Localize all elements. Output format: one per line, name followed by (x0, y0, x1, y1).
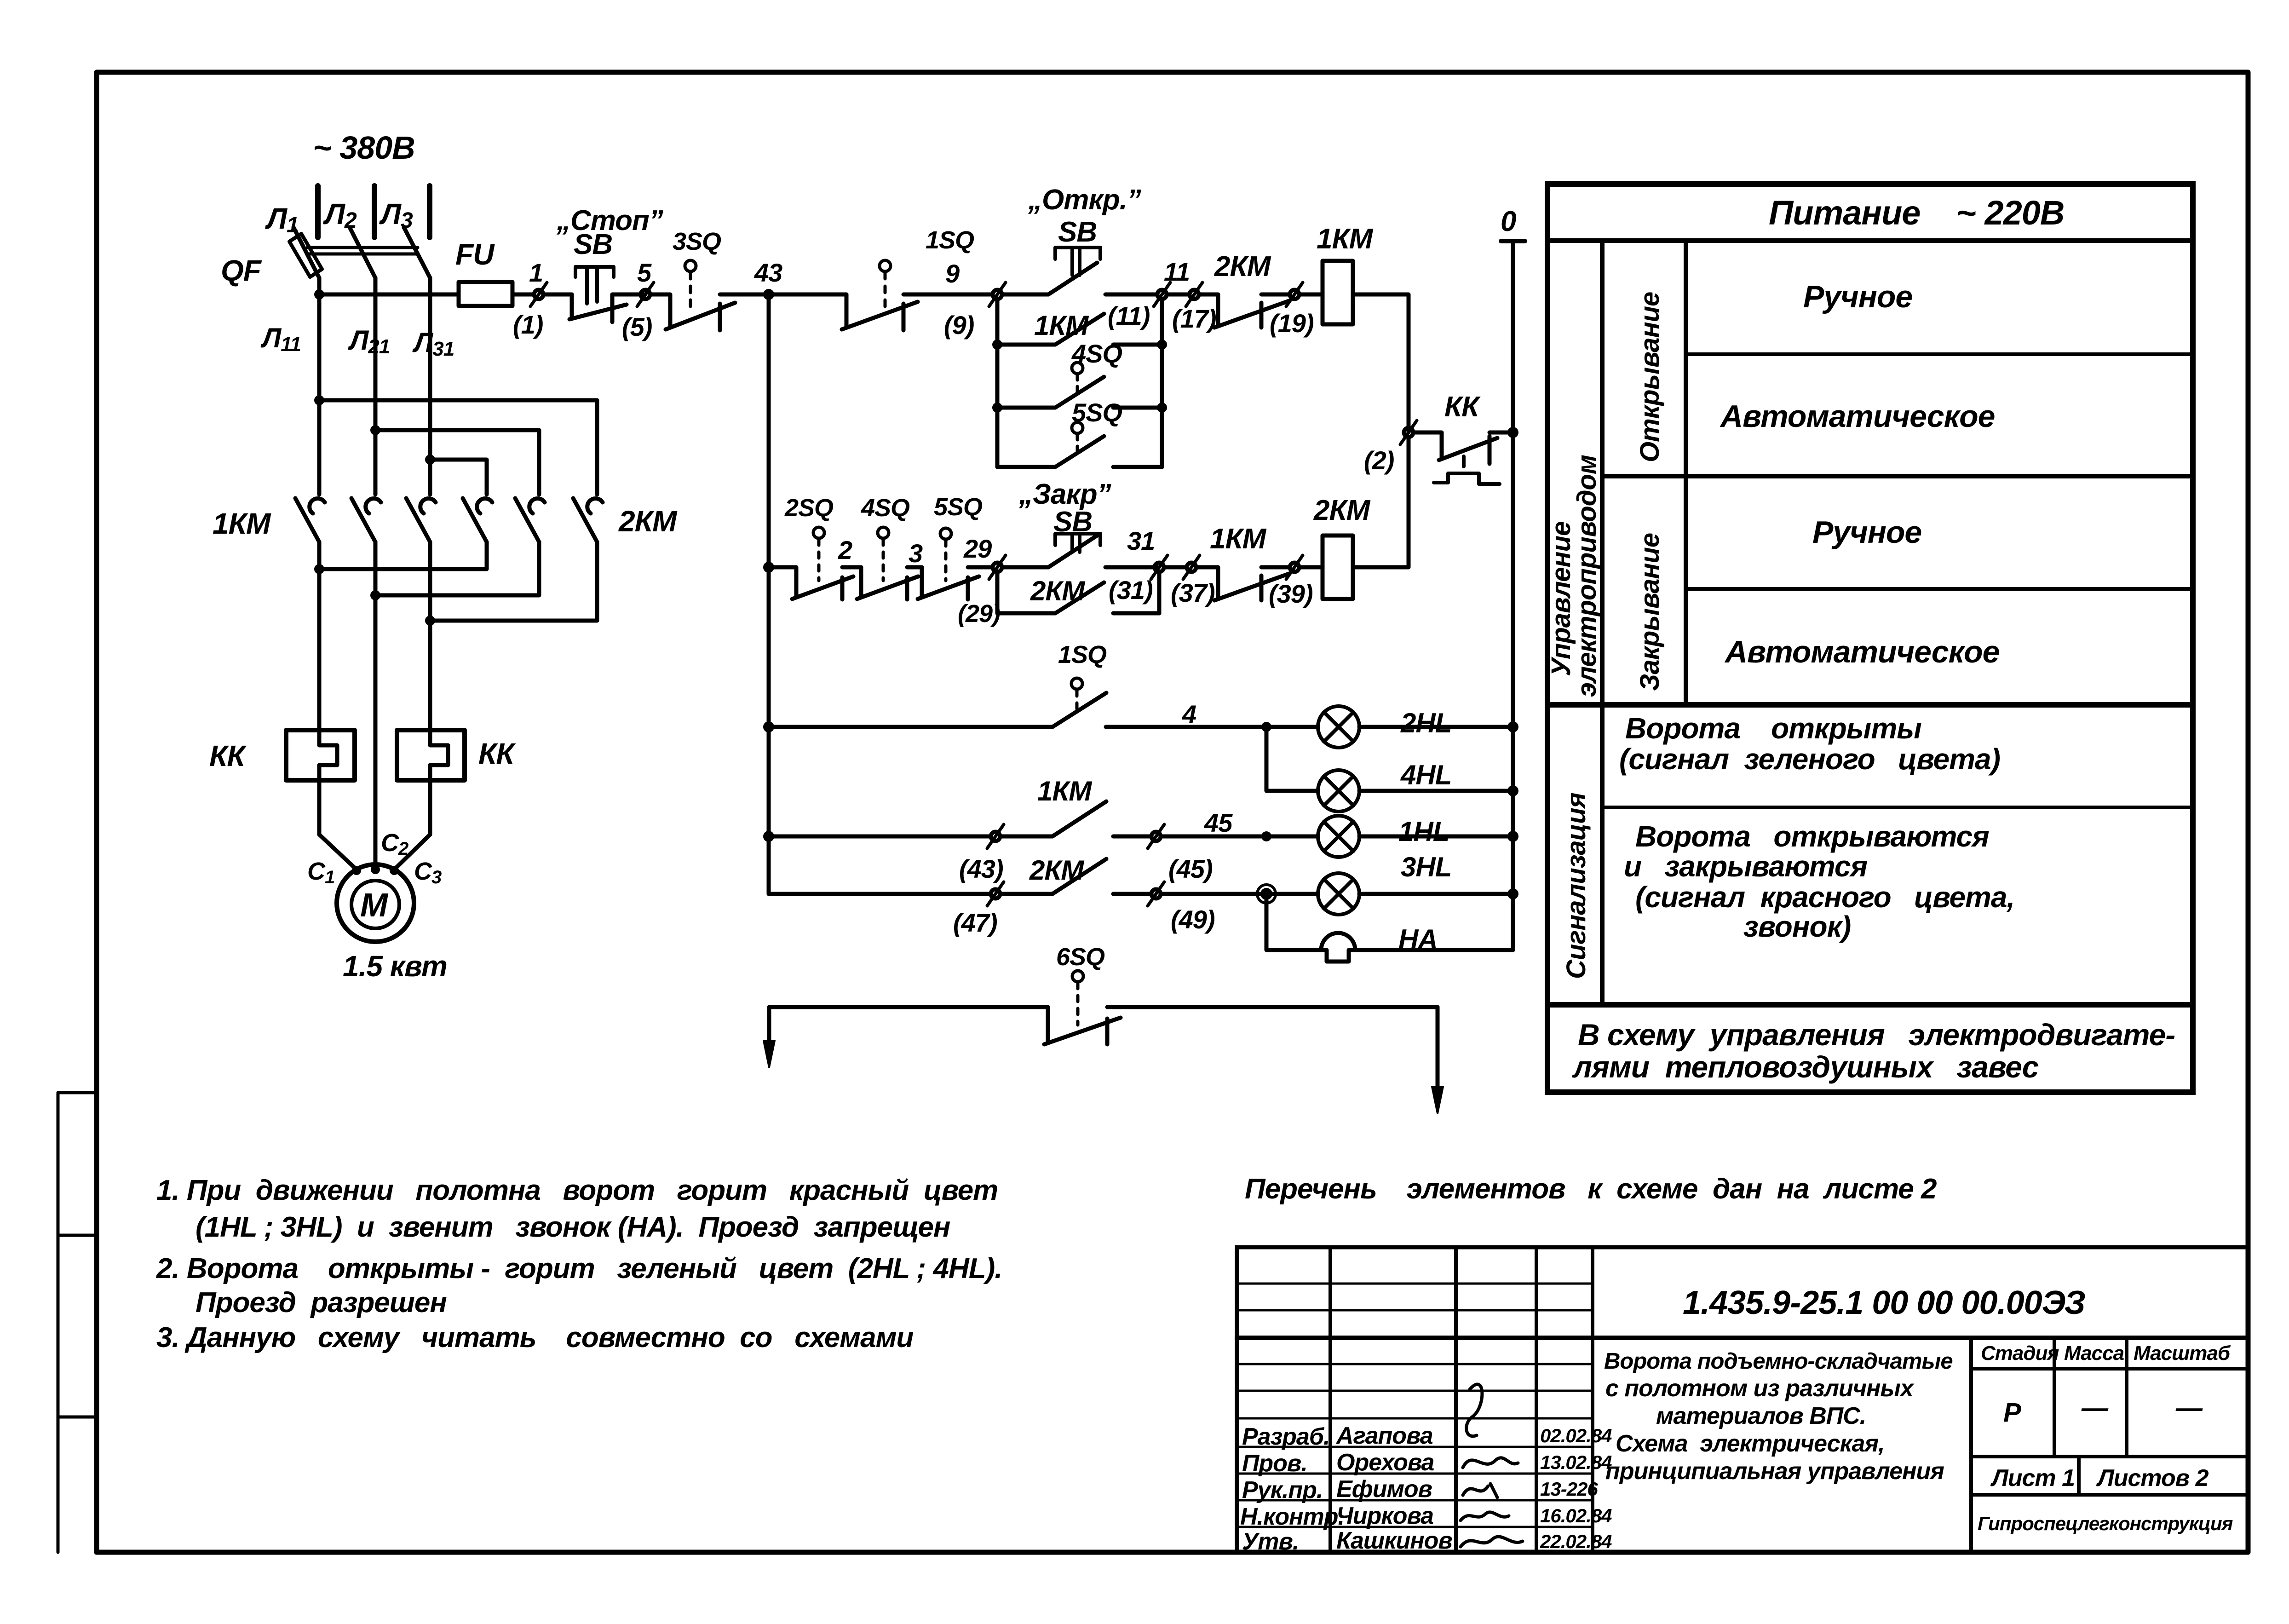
node on L11 y870 (314, 395, 324, 405)
svg-text:Агапова: Агапова (1335, 1422, 1433, 1449)
node rung5 bell branch (1260, 888, 1272, 900)
limit switch 5SQ head (1072, 422, 1083, 433)
table divider ruchnoe/avto 1 (1686, 352, 2193, 356)
svg-text:Схема электрическая,: Схема электрическая, (1616, 1430, 1885, 1457)
wire heater1 to motor (319, 777, 357, 870)
node on right branch y886 (1157, 403, 1167, 413)
wire rung3 left (769, 725, 1047, 729)
svg-text:0: 0 (1501, 206, 1516, 237)
svg-text:FU: FU (455, 238, 495, 271)
wire column L11 (317, 278, 322, 731)
limit switch 6SQ NC contact (1044, 1007, 1438, 1044)
thermal element KK left wire jog (319, 731, 337, 777)
node bus rung4hl (1507, 785, 1518, 796)
svg-text:SB: SB (1058, 216, 1097, 248)
svg-text:43: 43 (754, 258, 782, 287)
svg-text:Ворота открываются: Ворота открываются (1635, 820, 1989, 853)
wire heater2 to motor (394, 777, 430, 870)
contactor 2KM pole 6 (573, 498, 603, 542)
svg-text:Чиркова: Чиркова (1336, 1503, 1433, 1529)
point (2) circle (1404, 428, 1413, 437)
contact 1KM NC rung2 (1196, 567, 1290, 600)
node bus rung4 (1507, 831, 1518, 842)
point (45) circle (1151, 832, 1161, 841)
svg-text:22.02.84: 22.02.84 (1540, 1531, 1612, 1552)
branch right vertical to node 31 (1157, 572, 1162, 613)
terminal 0 bar (1501, 239, 1525, 243)
title block name section top (1237, 1336, 2248, 1340)
svg-text:4HL: 4HL (1400, 760, 1451, 790)
svg-text:(1HL ; 3HL) и звенит звоно: (1HL ; 3HL) и звенит звонок (НА). Проезд… (196, 1211, 950, 1243)
point (39) circle (1290, 563, 1299, 572)
thermal element KK right wire jog (430, 731, 448, 777)
node on L21 y1294 (370, 590, 380, 600)
svg-text:2КМ: 2КМ (1030, 576, 1086, 606)
svg-text:электроприводом: электроприводом (1572, 455, 1602, 697)
svg-text:—: — (2175, 1393, 2203, 1423)
svg-text:4SQ: 4SQ (1071, 339, 1122, 368)
coil 1KM (1323, 261, 1353, 324)
wire cross L1 to 2KM-6 (319, 400, 597, 495)
node on branch y886 (992, 403, 1002, 413)
svg-text:1КМ: 1КМ (213, 507, 271, 540)
svg-text:Пров.: Пров. (1242, 1450, 1307, 1477)
svg-text:Н.контр.: Н.контр. (1240, 1503, 1344, 1530)
svg-text:(1): (1) (513, 310, 543, 339)
limit switch 5SQ NC contact rung2 (918, 567, 993, 599)
svg-text:2. Ворота открыты - горит: 2. Ворота открыты - горит зеленый цвет (… (156, 1253, 1002, 1284)
arrow right down (1432, 1087, 1443, 1113)
node L2 terminal bar (372, 186, 377, 237)
svg-text:„Закр”: „Закр” (1018, 478, 1111, 510)
wire rung6 with left arrow (769, 1007, 1048, 1054)
svg-text:11: 11 (1164, 257, 1190, 286)
coil 2KM (1323, 536, 1353, 599)
svg-text:1КМ: 1КМ (1034, 310, 1089, 341)
limit switch 4SQ NC contact rung2 (857, 567, 922, 599)
node rung3 lamp branch (1261, 722, 1271, 732)
table divider signal/vshemu (1547, 1002, 2193, 1008)
lamp 2HL (1266, 725, 1318, 729)
limit switch 2SQ NC contact (769, 567, 861, 599)
button SB close NO contact (1048, 536, 1157, 567)
table divider ruchnoe/avto 2 (1686, 587, 2193, 591)
wire cross L3 to 2KM-4 (430, 460, 487, 495)
table divider otkr/zakr (1602, 474, 2193, 478)
svg-text:2HL: 2HL (1400, 708, 1451, 738)
svg-text:1SQ: 1SQ (1058, 641, 1107, 668)
breaker QF blade 2 (350, 227, 375, 278)
svg-text:звонок): звонок) (1743, 910, 1851, 943)
svg-text:3: 3 (909, 539, 923, 568)
point 5 circle (641, 290, 650, 299)
node rung2 left (763, 562, 774, 573)
svg-text:QF: QF (221, 254, 262, 287)
svg-text:Р: Р (2003, 1398, 2021, 1428)
svg-text:(39): (39) (1269, 579, 1313, 608)
svg-text:5SQ: 5SQ (934, 493, 983, 521)
svg-text:2: 2 (838, 536, 852, 564)
node bus rung5 (1507, 888, 1518, 899)
node rung4 lamp (1261, 831, 1271, 841)
breaker QF blade 3 (404, 227, 430, 278)
signature 4 (1461, 1512, 1509, 1520)
branch 2KM selfhold left vertical (995, 572, 1000, 613)
svg-text:(49): (49) (1171, 905, 1215, 934)
contactor 1KM pole 3 (406, 498, 436, 542)
point (9) circle (993, 290, 1002, 299)
node L3 terminal bar (427, 186, 432, 237)
arrow left down (764, 1041, 775, 1067)
wire 2KM-4 to L1 column (319, 542, 487, 569)
contactor 1KM pole 2 (351, 498, 381, 542)
contactor 2KM pole 5 (515, 498, 545, 542)
svg-text:1: 1 (529, 258, 543, 287)
svg-text:02.02.84: 02.02.84 (1540, 1425, 1612, 1446)
node 31 circle (1155, 563, 1164, 572)
svg-text:2КМ: 2КМ (1313, 495, 1371, 526)
svg-text:(29): (29) (958, 600, 1000, 628)
wire (29) to SB close (1002, 565, 1048, 570)
svg-text:1.435.9-25.1 00 00 00.00ЭЗ: 1.435.9-25.1 00 00 00.00ЭЗ (1683, 1284, 2085, 1321)
svg-text:(17): (17) (1172, 304, 1216, 333)
button SB open NO contact (1048, 263, 1157, 294)
lamp 4HL branch (1266, 731, 1318, 791)
svg-text:13-226: 13-226 (1540, 1478, 1598, 1500)
wire point1 to SB stop (543, 293, 572, 297)
node KK to 0 bus (1507, 427, 1518, 438)
limit switch 4SQ head (1072, 363, 1083, 374)
thermal element KK left box (286, 730, 355, 780)
svg-text:Ручное: Ручное (1803, 279, 1912, 314)
point (43) circle (991, 832, 1000, 841)
svg-text:—: — (2081, 1393, 2109, 1423)
motor M circle outer (337, 864, 414, 942)
svg-text:4: 4 (1182, 700, 1196, 729)
svg-text:Стадия: Стадия (1981, 1342, 2059, 1365)
point (29) circle (993, 563, 1002, 572)
svg-text:Закрывание: Закрывание (1635, 533, 1665, 691)
node on L11 y1237 (314, 564, 324, 574)
svg-text:Кашкинов: Кашкинов (1336, 1527, 1452, 1554)
svg-text:SB: SB (1053, 506, 1092, 538)
table header divider (1547, 238, 2193, 243)
svg-text:1КМ: 1КМ (1317, 223, 1374, 255)
svg-text:31: 31 (1127, 526, 1155, 555)
svg-text:(37): (37) (1171, 578, 1215, 607)
node rung4 left (763, 831, 774, 842)
point (37) circle (1187, 563, 1196, 572)
svg-text:принципиальная управления: принципиальная управления (1605, 1458, 1944, 1485)
bus 0 vertical (1511, 241, 1515, 950)
limit switch 6SQ head (1072, 971, 1083, 982)
contact 2KM NC rung1 (1199, 294, 1290, 328)
point 1 circle (534, 290, 543, 299)
svg-text:Утв.: Утв. (1242, 1528, 1299, 1555)
svg-text:Открывание: Открывание (1635, 292, 1665, 462)
svg-text:1. При движении полотна в: 1. При движении полотна ворот горит крас… (156, 1175, 998, 1206)
svg-text:(9): (9) (944, 311, 974, 340)
wire coil2 to right vertical (1299, 437, 1409, 567)
svg-text:Орехова: Орехова (1336, 1449, 1434, 1476)
svg-text:SB: SB (574, 229, 612, 260)
node on branch y749 (992, 340, 1002, 350)
svg-text:45: 45 (1204, 808, 1233, 837)
title block verticals left grid (1330, 1247, 1593, 1552)
bell HA branch wire (1266, 900, 1321, 950)
svg-text:с полотном из различных: с полотном из различных (1605, 1375, 1915, 1402)
signature 2 (1463, 1458, 1518, 1468)
button SB open actuator (1055, 248, 1100, 275)
svg-text:КК: КК (209, 739, 247, 772)
svg-text:5: 5 (637, 258, 652, 287)
node on L31 y999 (425, 455, 435, 465)
svg-text:(2): (2) (1364, 446, 1394, 475)
limit switch 1SQ signal head (1071, 678, 1082, 689)
svg-text:М: М (360, 887, 389, 924)
svg-text:КК: КК (478, 737, 516, 770)
contact 1KM signal NO (1000, 801, 1151, 836)
svg-text:(45): (45) (1168, 854, 1213, 883)
title block stadiya column (1971, 1338, 2127, 1552)
svg-text:1КМ: 1КМ (1210, 523, 1267, 555)
table col line 1 (1600, 241, 1605, 1005)
svg-text:1HL: 1HL (1398, 816, 1449, 847)
svg-text:материалов ВПС.: материалов ВПС. (1656, 1403, 1866, 1429)
contact 1KM aux NO (997, 314, 1162, 345)
wire rung5 left (769, 836, 991, 894)
svg-text:Ефимов: Ефимов (1336, 1476, 1432, 1503)
svg-text:Разраб.: Разраб. (1242, 1423, 1329, 1450)
vertical bus node43 down (767, 299, 771, 894)
limit switch 5SQ NO contact (997, 436, 1162, 467)
svg-text:Гипроспецлегконструкция: Гипроспецлегконструкция (1978, 1513, 2233, 1534)
bell HA (1321, 933, 1355, 962)
signature 1 (1467, 1384, 1482, 1436)
thermal KK heater mark (1434, 456, 1500, 484)
wire rung3 right (1106, 725, 1266, 729)
node on L31 y1349 (425, 616, 435, 626)
svg-text:29: 29 (963, 534, 992, 563)
wire (9) to SB open (1002, 293, 1048, 297)
title block list divider (1971, 1457, 2248, 1495)
lamp 1HL (1266, 835, 1318, 839)
svg-text:16.02.84: 16.02.84 (1540, 1505, 1612, 1526)
wire node43 to 1SQ (769, 293, 846, 297)
svg-text:(5): (5) (622, 312, 652, 341)
wire fuse to point 1 (512, 293, 534, 297)
svg-text:3SQ: 3SQ (673, 228, 721, 255)
svg-text:Автоматическое: Автоматическое (1720, 399, 1995, 434)
svg-text:Лист 1: Лист 1 (1990, 1465, 2075, 1492)
svg-text:4SQ: 4SQ (861, 494, 910, 522)
title block outer (1237, 1247, 2248, 1552)
svg-text:Ворота подъемно-складчатые: Ворота подъемно-складчатые (1604, 1349, 1953, 1374)
node rung3 left (763, 721, 774, 732)
svg-text:2SQ: 2SQ (784, 494, 834, 522)
svg-text:„Откр.”: „Откр.” (1028, 184, 1141, 216)
svg-text:2КМ: 2КМ (1029, 855, 1085, 886)
node on L21 y935 (370, 425, 380, 435)
svg-text:Масса: Масса (2064, 1342, 2124, 1365)
svg-text:КК: КК (1444, 391, 1481, 423)
breaker QF handle rect (289, 234, 322, 277)
svg-text:2КМ: 2КМ (1214, 251, 1271, 282)
wire coil1 to right vertical (1299, 294, 1409, 432)
wire rung1 node to fuse (319, 293, 459, 297)
svg-text:6SQ: 6SQ (1056, 943, 1105, 971)
table outer frame (1547, 184, 2193, 1092)
table col line 2 (1684, 241, 1688, 705)
table divider vorota rows (1602, 806, 2193, 809)
point (47) circle (991, 889, 1000, 898)
limit switch 4SQ head rung2 (878, 527, 889, 538)
svg-text:Проезд разрешен: Проезд разрешен (196, 1287, 447, 1319)
svg-text:и закрываются: и закрываются (1624, 850, 1867, 883)
signature 3 (1463, 1484, 1497, 1497)
svg-text:(сигнал зеленого цвета): (сигнал зеленого цвета) (1619, 743, 2000, 776)
signature 5 (1461, 1537, 1523, 1547)
frame margin column left (58, 1093, 97, 1552)
title block stadiya header row (1971, 1367, 2248, 1371)
contact 2KM signal NO (1000, 859, 1151, 894)
svg-text:Ручное: Ручное (1812, 515, 1921, 550)
wire 11 to 17 (1167, 293, 1190, 297)
wire bell to bus (1355, 948, 1513, 952)
breaker QF blade 1 (293, 227, 319, 278)
svg-text:9: 9 (945, 259, 960, 288)
wire rung5 right (1161, 892, 1266, 896)
button SB close actuator (1055, 534, 1100, 552)
svg-text:лями тепловоздушных завес: лями тепловоздушных завес (1572, 1050, 2039, 1084)
node bus rung3 (1507, 721, 1518, 732)
node 11 circle (1157, 290, 1167, 299)
svg-text:5SQ: 5SQ (1072, 398, 1122, 427)
svg-text:(31): (31) (1109, 576, 1153, 605)
wire 2KM-5 to L2 column (375, 542, 539, 595)
svg-text:1.5 квт: 1.5 квт (343, 950, 447, 983)
fuse FU (459, 282, 512, 306)
node tap control (314, 289, 324, 299)
point (17) circle (1190, 290, 1199, 299)
limit switch 4SQ NO contact (997, 377, 1162, 408)
svg-text:2КМ: 2КМ (618, 505, 678, 538)
svg-text:В схему управления электрод: В схему управления электродвигате- (1578, 1018, 2175, 1052)
wire 2KM-6 to L3 column (430, 542, 597, 621)
svg-text:1SQ: 1SQ (926, 226, 974, 254)
node L1 terminal bar (315, 186, 321, 237)
svg-text:Ворота открыты: Ворота открыты (1625, 712, 1921, 745)
svg-text:Автоматическое: Автоматическое (1724, 634, 1999, 669)
wire rung6 right down arrow (1436, 1007, 1440, 1100)
wire rung4 left (769, 835, 991, 839)
branch left vertical from (9) (995, 299, 1000, 467)
limit switch 1SQ signal NO contact (1047, 693, 1106, 727)
svg-text:Листов 2: Листов 2 (2096, 1465, 2209, 1492)
node on right branch y749 (1157, 340, 1167, 350)
limit switch 1SQ NC contact (842, 294, 993, 330)
point (19) circle (1290, 290, 1299, 299)
contact 2KM selfhold NO (997, 582, 1159, 613)
thermal element KK right box (397, 730, 465, 780)
title block rows left grid (1237, 1284, 1593, 1527)
node 43 (763, 289, 774, 300)
svg-text:(сигнал красного цвета,: (сигнал красного цвета, (1635, 881, 2014, 914)
svg-text:~ 380B: ~ 380B (313, 130, 415, 166)
motor terminal dots (352, 866, 361, 875)
contactor 2KM pole 4 (463, 498, 492, 542)
svg-text:Сигнализация: Сигнализация (1561, 792, 1591, 979)
limit switch 2SQ head (813, 527, 824, 538)
svg-text:13.02.84: 13.02.84 (1540, 1451, 1612, 1473)
svg-text:Рук.пр.: Рук.пр. (1242, 1477, 1323, 1503)
wire column L21 (374, 278, 378, 865)
wire rung4 right (1161, 835, 1266, 839)
svg-text:(19): (19) (1270, 309, 1314, 338)
wire column L31 (428, 278, 432, 731)
breaker QF tie bar (307, 248, 418, 254)
limit switch 1SQ head (880, 260, 891, 271)
wire 31 to 37 (1164, 565, 1187, 570)
svg-text:(43): (43) (959, 854, 1003, 883)
point (49) circle (1151, 889, 1161, 898)
motor M circle inner (351, 881, 399, 928)
svg-text:Масштаб: Масштаб (2134, 1342, 2231, 1365)
wire cross L2 to 2KM-5 (375, 430, 539, 495)
limit switch 3SQ head (685, 260, 696, 271)
button SB stop NC contact (569, 294, 645, 322)
lamp 3HL (1266, 892, 1318, 896)
contact KK thermal NC (1413, 432, 1513, 464)
table divider upravlenie/signalizaciya (1547, 702, 2193, 708)
limit switch 5SQ head rung2 (940, 528, 951, 539)
limit switch 3SQ NC contact (650, 294, 769, 330)
svg-text:Питание ~ 220В: Питание ~ 220В (1769, 194, 2064, 232)
svg-text:(47): (47) (953, 908, 997, 937)
contactor 1KM pole 1 (295, 498, 325, 542)
svg-text:1КМ: 1КМ (1037, 776, 1093, 806)
svg-text:(11): (11) (1108, 301, 1150, 330)
svg-text:3HL: 3HL (1401, 852, 1451, 882)
button SB stop actuator (575, 267, 614, 304)
svg-text:Перечень элементов к схе: Перечень элементов к схеме дан на листе … (1245, 1173, 1937, 1205)
branch right vertical to node 11 (1160, 299, 1164, 467)
svg-text:3. Данную схему читать: 3. Данную схему читать совместно со схем… (156, 1322, 913, 1353)
